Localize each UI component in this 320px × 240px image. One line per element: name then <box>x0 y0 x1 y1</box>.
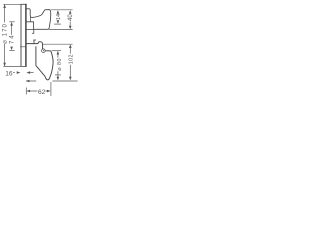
extension blade top <box>51 9 73 11</box>
tick sleeve top <box>9 21 14 23</box>
svg-text:16: 16 <box>5 70 13 77</box>
dim 74 arrows <box>10 22 13 26</box>
step under upper lever <box>27 30 34 34</box>
dim D80 arrows <box>57 51 60 55</box>
extension 62 right <box>50 82 52 96</box>
svg-text:62: 62 <box>38 89 46 96</box>
escutcheon plate (side view) <box>21 4 27 66</box>
dim 102 arrows <box>69 44 72 48</box>
dim 40 arrows <box>69 10 72 14</box>
dimension graphics <box>3 4 77 96</box>
svg-text:102: 102 <box>69 54 75 64</box>
dim 14 arrows <box>57 10 60 14</box>
dim line 102 <box>69 48 71 77</box>
dim 62 line <box>29 90 47 92</box>
extension lever step <box>52 50 61 52</box>
svg-text:40: 40 <box>68 14 74 21</box>
dim D170 arrows <box>3 4 6 8</box>
svg-text:⌀ 170: ⌀ 170 <box>3 23 9 44</box>
dim line 40 <box>69 22 71 26</box>
baseline bottom <box>26 80 78 82</box>
extension line plate bottom <box>3 65 20 67</box>
lever handle upper position <box>27 9 51 30</box>
dim line D170 <box>4 5 6 67</box>
plate mid seam <box>20 46 26 48</box>
dim line 74 <box>11 26 13 35</box>
tick mid right <box>55 74 61 76</box>
step above lower lever <box>34 40 36 44</box>
svg-text:14: 14 <box>56 14 62 20</box>
svg-text:⌀ 80: ⌀ 80 <box>57 58 63 71</box>
extension line plate top <box>3 3 20 5</box>
dim 16 arrows <box>17 71 21 74</box>
tick sleeve bottom <box>9 49 14 51</box>
dim 62 arrows <box>26 90 30 93</box>
baseline left arrow <box>26 80 30 83</box>
tick dim14 bottom <box>54 23 61 25</box>
extension blade bottom <box>49 29 73 31</box>
pivot screw circle <box>42 49 46 53</box>
extension 62 left <box>25 88 27 95</box>
dim line D80 <box>57 54 59 77</box>
hub lower edge <box>29 17 31 22</box>
extension lever top line <box>43 43 73 45</box>
lever handle lower position <box>27 42 53 80</box>
dim line 14 <box>57 14 59 21</box>
svg-text:74: 74 <box>10 34 16 44</box>
drawing group <box>21 4 54 80</box>
